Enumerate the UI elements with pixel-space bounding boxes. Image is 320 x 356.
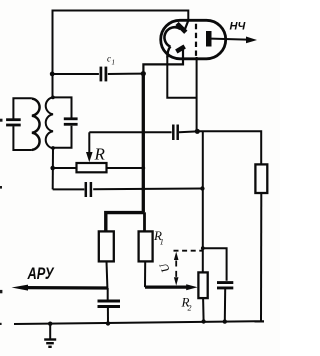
svg-text:c: c xyxy=(107,54,111,64)
svg-text:2: 2 xyxy=(188,304,192,313)
svg-text:1: 1 xyxy=(112,59,116,67)
svg-text:АРУ: АРУ xyxy=(27,265,55,283)
svg-text:R: R xyxy=(94,145,106,164)
svg-text:U: U xyxy=(156,260,173,275)
svg-text:1: 1 xyxy=(160,238,164,247)
svg-text:НЧ: НЧ xyxy=(230,21,246,33)
